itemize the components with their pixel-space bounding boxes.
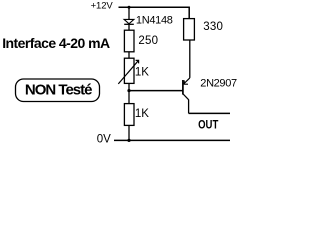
resistor 250 [124,30,134,52]
svg-text:330: 330 [203,21,223,33]
diode D1 1N4148 (anode top, cathode bar bottom) [124,19,134,23]
emitter arrowhead (points to base bar) [184,80,188,84]
wire: OUT horizontal [189,112,230,114]
wire: top rail down to R 330 [188,7,190,18]
wire: base node to transistor base [129,90,183,92]
wire: 1K to 0V rail [128,125,130,140]
svg-text:Interface 4-20 mA: Interface 4-20 mA [2,35,110,51]
node: base junction dot [127,89,130,92]
svg-text:1K: 1K [135,67,149,79]
transistor collector diagonal [183,94,188,100]
resistor 330 [184,19,195,40]
svg-text:OUT: OUT [198,118,219,132]
resistor 1K (lower) [124,104,134,126]
wire: 330 to emitter [189,40,191,78]
svg-text:1K: 1K [135,108,149,120]
transistor Q1 2N2907 PNP: emitter diagonal [184,78,190,84]
wire: top rail to diode [128,7,130,20]
svg-text:2N2907: 2N2907 [200,77,237,89]
wire: 250 to potentiometer [128,52,130,58]
svg-text:1N4148: 1N4148 [136,15,173,27]
potentiometer arrowhead [136,60,139,63]
svg-text:+12V: +12V [91,1,114,12]
bottom rail wire (0V) [114,139,230,141]
top rail wire (+12V) [119,6,190,8]
wire: base node down to R 1K [128,91,130,104]
svg-text:NON Testé: NON Testé [25,81,92,98]
wire: diode to R 250 [128,24,130,30]
wire: collector down [188,100,190,114]
potentiometer 1K (variable resistor) body [124,58,134,83]
svg-text:0V: 0V [97,133,111,145]
badge "NON Testé" rounded box [16,79,100,102]
node: bottom junction dot [127,139,130,142]
svg-text:250: 250 [138,35,158,47]
node: top junction dot [128,6,131,9]
potentiometer arrow diagonal [118,60,138,84]
transistor base bar [182,80,184,95]
wire: pot to base node [128,83,130,90]
